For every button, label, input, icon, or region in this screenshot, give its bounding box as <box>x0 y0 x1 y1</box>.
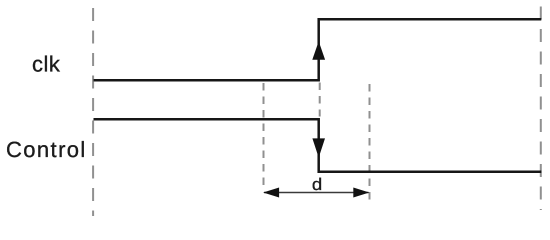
delay arrow right head <box>353 188 369 198</box>
svg-text:clk: clk <box>32 51 61 76</box>
svg-text:d: d <box>312 175 322 194</box>
falling-edge down arrowhead <box>312 138 325 157</box>
delay arrow left head <box>263 188 279 198</box>
clk waveform: low, rising edge, high <box>94 19 542 80</box>
rising-edge up arrowhead <box>312 41 325 60</box>
dashed clock-boundary guide (right, x=541) <box>540 7 542 211</box>
Control waveform: high, falling edge, low <box>94 119 542 172</box>
dashed clock-boundary guide (left, x=93) <box>92 8 94 216</box>
delay measurement double arrow line <box>264 192 369 194</box>
dashed guide at start of delay d (x=263) <box>263 83 265 189</box>
svg-text:Control: Control <box>6 137 87 162</box>
dashed guide linking clk edge to Control edge (x=319.5) <box>319 83 321 117</box>
dashed guide at end of delay d (x=369.5) <box>369 84 371 200</box>
